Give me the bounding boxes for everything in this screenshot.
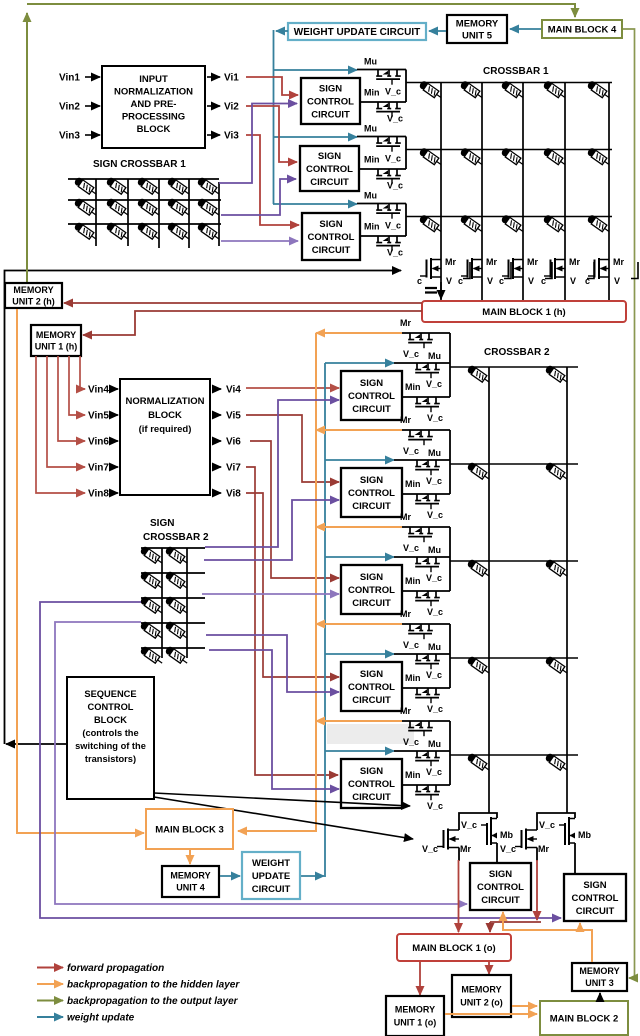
transistor Mu row4 (crossbar2) xyxy=(415,654,440,669)
wire Min rail row1 xyxy=(360,101,406,103)
svg-text:SIGN: SIGN xyxy=(150,518,174,529)
svg-text:V_c: V_c xyxy=(539,820,555,830)
svg-text:Vin7: Vin7 xyxy=(88,463,109,474)
svg-text:backpropagation to the hidden: backpropagation to the hidden layer xyxy=(67,980,240,991)
memristor crossbar1 r3c4 xyxy=(542,214,567,235)
sign control circuit 3 (layer2) xyxy=(341,565,402,614)
transistor Mu row2 (crossbar2) xyxy=(415,460,440,475)
wire red MEMORY UNIT 1 (h) to Vin4 xyxy=(80,356,85,389)
main block 1 (o) xyxy=(397,934,511,961)
svg-text:Mr: Mr xyxy=(445,257,456,267)
wire olive top horizontal xyxy=(27,4,575,17)
sign crossbar 2 row lines xyxy=(141,548,205,648)
svg-text:NORMALIZATION: NORMALIZATION xyxy=(126,396,205,407)
wire crossbar1 row line 3 xyxy=(406,216,612,218)
svg-text:CIRCUIT: CIRCUIT xyxy=(352,598,391,609)
memristor crossbar1 r1c2 xyxy=(459,80,484,101)
memristor sign-crossbar1 r3c5 xyxy=(196,221,221,242)
wire Min rail row3 (crossbar2) xyxy=(402,590,450,592)
wire blue Mu row1 xyxy=(273,69,357,71)
svg-text:V_c: V_c xyxy=(461,820,477,830)
weight update circuit (top) xyxy=(288,23,426,40)
svg-text:CONTROL: CONTROL xyxy=(88,702,134,712)
wire black Mu rail row2 (crossbar2) xyxy=(394,459,450,461)
wire Mu rail row2 xyxy=(357,136,406,138)
wire black Mu rail row4 (crossbar2) xyxy=(394,653,450,655)
arrow Vin1 into block xyxy=(85,76,100,78)
sign crossbar 1 column lines xyxy=(96,179,219,248)
wire Min rail row2 xyxy=(360,168,406,170)
svg-text:SIGN: SIGN xyxy=(360,572,383,583)
transistor pair 2 rail xyxy=(537,813,575,830)
svg-text:V_c: V_c xyxy=(403,446,419,456)
sequence control block xyxy=(67,677,154,799)
svg-text:CIRCUIT: CIRCUIT xyxy=(310,177,349,188)
svg-text:Mr: Mr xyxy=(400,318,411,328)
wire blue Mu row3 (crossbar2) xyxy=(325,556,394,558)
wire red pair2 horizontal xyxy=(490,921,541,923)
svg-text:CONTROL: CONTROL xyxy=(307,96,354,107)
svg-text:AND PRE-: AND PRE- xyxy=(131,99,177,110)
arrow Vin6 into normalization block xyxy=(112,440,118,442)
pointer sequence-control to crossbar2 transistors (upper) xyxy=(154,793,410,806)
wire Min rail row5 (crossbar2) xyxy=(402,784,450,786)
memristor sign-crossbar2 r2c2 xyxy=(164,570,189,591)
wire orange Mr rail row3 xyxy=(316,526,402,528)
sign control circuit 2 (hidden) xyxy=(300,146,359,191)
svg-text:Mr: Mr xyxy=(613,257,624,267)
wire blue MAIN BLOCK 4 to MEMORY UNIT 5 xyxy=(510,28,541,30)
svg-text:Vi2: Vi2 xyxy=(224,102,239,113)
wire red pair2 into MAIN BLOCK 1 (o) xyxy=(489,922,491,932)
memristor crossbar1 r1c4 xyxy=(542,80,567,101)
normalization block xyxy=(120,379,210,495)
wire right rail row1 xyxy=(405,70,407,103)
svg-text:BLOCK: BLOCK xyxy=(137,124,171,135)
svg-text:CIRCUIT: CIRCUIT xyxy=(311,109,350,120)
svg-text:UNIT 2 (o): UNIT 2 (o) xyxy=(460,998,503,1008)
memristor sign-crossbar2 r5c2 xyxy=(164,645,189,666)
memristor sign-crossbar2 r1c2 xyxy=(164,545,189,566)
memristor crossbar1 r3c1 xyxy=(418,214,443,235)
wire purple sign-crossbar2 row2 to SCC2 xyxy=(204,500,339,560)
svg-text:Mu: Mu xyxy=(364,57,377,67)
svg-text:c: c xyxy=(585,276,590,286)
legend weight update xyxy=(37,1016,63,1018)
transistor Mr output pair1 xyxy=(437,829,459,850)
svg-text:MEMORY: MEMORY xyxy=(579,966,619,976)
wire orange Mr rail row5 xyxy=(316,720,402,722)
svg-text:V_c: V_c xyxy=(500,844,516,854)
memristor crossbar2 r1c1 xyxy=(466,364,491,385)
svg-text:MEMORY: MEMORY xyxy=(13,285,53,295)
wire purple sign-crossbar2 row1 to SCC1 xyxy=(205,400,339,547)
svg-text:Mu: Mu xyxy=(364,124,377,134)
svg-text:Vi6: Vi6 xyxy=(226,437,241,448)
sign control circuit 2 (output) xyxy=(564,874,626,921)
svg-text:MEMORY: MEMORY xyxy=(456,18,499,29)
sign control circuit 3 (hidden) xyxy=(302,213,360,260)
wire blue MEMORY UNIT 4 to WEIGHT UPDATE CIRCUIT 2 xyxy=(220,875,240,877)
transistor Mb output pair1 xyxy=(481,817,497,845)
arrow Vi4 out of normalization block xyxy=(212,388,221,390)
wire purple sign-crossbar2 left to SCC (o) 2 xyxy=(40,602,561,918)
arrow black MAIN BLOCK 2 to MEMORY UNIT 3 xyxy=(599,993,601,1000)
wire crossbar2 row line 3 xyxy=(450,560,578,562)
wire right rail row3 xyxy=(405,204,407,237)
transistor Mr crossbar1 col3 xyxy=(502,258,523,279)
wire purple sign-crossbar1 row2 to SCC2 xyxy=(221,179,296,215)
transistor Mu row3 (crossbar2) xyxy=(415,557,440,572)
wire black Mu rail row1 (crossbar2) xyxy=(394,362,450,364)
svg-text:V_c: V_c xyxy=(426,476,442,486)
svg-text:CIRCUIT: CIRCUIT xyxy=(576,906,615,917)
memory unit 1 (o) xyxy=(386,996,444,1036)
arrow orange MAIN BLOCK 3 to MEMORY UNIT 4 xyxy=(189,850,191,864)
svg-text:c: c xyxy=(541,276,546,286)
wire olive left vertical to MEMORY UNIT 2 (h) xyxy=(26,13,28,282)
wire red pair2 Mr down xyxy=(536,860,538,920)
memristor sign-crossbar1 r3c2 xyxy=(105,221,130,242)
memristor sign-crossbar1 r1c4 xyxy=(166,176,191,197)
legend backprop output xyxy=(37,1000,63,1002)
arrow column1 into MAIN BLOCK 1 (h) xyxy=(440,282,442,299)
memristor crossbar1 r1c5 xyxy=(586,80,611,101)
wire red Vi5 to SCC2 (layer2) xyxy=(246,415,339,482)
svg-text:Mr: Mr xyxy=(527,257,538,267)
sign control circuit 4 (layer2) xyxy=(341,662,402,711)
svg-text:V_c: V_c xyxy=(403,640,419,650)
wire purple sign-crossbar2 row3 to SCC3 xyxy=(202,593,339,595)
svg-text:MEMORY: MEMORY xyxy=(36,330,76,340)
svg-text:CONTROL: CONTROL xyxy=(348,585,395,596)
arrow Vin8 into normalization block xyxy=(112,492,118,494)
transistor Mb output pair2 xyxy=(559,817,575,845)
wire red Vi1 to sign control circuit 1 xyxy=(246,77,298,95)
wire crossbar1 row line 2 xyxy=(406,149,612,151)
wire right rail row1 (crossbar2) xyxy=(449,333,451,397)
memristor crossbar1 r1c1 xyxy=(418,80,443,101)
svg-text:Mr: Mr xyxy=(400,512,411,522)
wire orange MEMORY UNIT 2 (o) to MAIN BLOCK 2 xyxy=(512,1005,537,1007)
wire blue Mu row4 (crossbar2) xyxy=(325,653,394,655)
svg-text:Vin6: Vin6 xyxy=(88,437,109,448)
memristor sign-crossbar2 r3c2 xyxy=(164,595,189,616)
memristor sign-crossbar1 r3c4 xyxy=(166,221,191,242)
svg-text:SIGN: SIGN xyxy=(360,669,383,680)
wire V_c elbow col2 xyxy=(504,262,511,279)
wire red MEMORY UNIT 1 (h) to Vin7 xyxy=(47,356,85,467)
svg-text:NORMALIZATION: NORMALIZATION xyxy=(114,87,193,98)
svg-text:Min: Min xyxy=(405,382,421,392)
memory unit 3 xyxy=(572,963,627,991)
svg-text:Min: Min xyxy=(364,88,380,98)
transistor Mr crossbar1 col5 xyxy=(588,258,609,279)
wire red Vi6 to SCC3 (layer2) xyxy=(250,441,339,578)
memristor sign-crossbar1 r1c5 xyxy=(196,176,221,197)
svg-text:V: V xyxy=(570,276,576,286)
wire purple sign-crossbar2 row4 to SCC4 xyxy=(206,635,339,692)
arrow Vi1 out of block xyxy=(207,76,220,78)
wire right rail row4 (crossbar2) xyxy=(449,624,451,688)
svg-text:V_c: V_c xyxy=(427,607,443,617)
wire blue weight-update bus crossbar1 xyxy=(273,30,275,204)
transistor Min row3 xyxy=(376,236,401,251)
wire crossbar1 row line 1 xyxy=(406,82,612,84)
memristor crossbar2 r5c1 xyxy=(466,752,491,773)
memristor sign-crossbar2 r4c1 xyxy=(139,620,164,641)
arrow red MAIN BLOCK 1 (o) to MEMORY UNIT 1 (o) xyxy=(419,962,421,995)
svg-text:V: V xyxy=(614,276,620,286)
memristor sign-crossbar1 r3c1 xyxy=(73,221,98,242)
memristor crossbar1 r3c3 xyxy=(500,214,525,235)
wire Mu rail row1 xyxy=(357,69,406,71)
memristor crossbar2 r4c2 xyxy=(544,655,569,676)
svg-text:UPDATE: UPDATE xyxy=(252,871,290,882)
svg-text:(controls the: (controls the xyxy=(82,728,138,738)
memristor sign-crossbar1 r1c2 xyxy=(105,176,130,197)
svg-text:MEMORY: MEMORY xyxy=(395,1005,435,1015)
memristor sign-crossbar2 r3c1 xyxy=(139,595,164,616)
svg-text:MAIN BLOCK 1 (h): MAIN BLOCK 1 (h) xyxy=(482,307,565,318)
memory unit 2 (o) xyxy=(452,975,511,1017)
wire dark-red MAIN BLOCK 1 (h) to MEMORY UNIT 2 (h) xyxy=(64,302,422,304)
transistor Mr output pair2 xyxy=(515,829,537,850)
wire black Mu rail row5 (crossbar2) xyxy=(394,750,450,752)
svg-text:Mu: Mu xyxy=(364,191,377,201)
wire red Vi4 to SCC1 (layer2) xyxy=(246,387,339,389)
svg-text:Mu: Mu xyxy=(428,545,441,555)
wire blue WEIGHT UPDATE CIRCUIT output xyxy=(276,30,288,32)
wire Min rail row4 (crossbar2) xyxy=(402,687,450,689)
svg-text:SIGN: SIGN xyxy=(319,83,342,94)
wire black Mr rail row5 xyxy=(402,720,450,722)
svg-text:V_c: V_c xyxy=(403,543,419,553)
svg-text:Min: Min xyxy=(364,222,380,232)
memristor crossbar2 r2c2 xyxy=(544,461,569,482)
wire sequence-control left output xyxy=(6,743,67,745)
wire orange crossbar2 bus to MAIN BLOCK 3 xyxy=(238,333,316,831)
crossbar 1 column lines xyxy=(441,83,609,302)
sign control circuit 1 (layer2) xyxy=(341,371,402,420)
memristor crossbar1 r3c2 xyxy=(459,214,484,235)
svg-text:Vin5: Vin5 xyxy=(88,411,109,422)
svg-text:Mu: Mu xyxy=(428,642,441,652)
memristor sign-crossbar1 r1c3 xyxy=(136,176,161,197)
arrow Vi6 out of normalization block xyxy=(212,440,221,442)
arrow Vi8 out of normalization block xyxy=(212,492,221,494)
transistor Min row1 (crossbar2) xyxy=(415,397,440,412)
svg-text:CIRCUIT: CIRCUIT xyxy=(312,245,351,256)
memristor crossbar1 r2c3 xyxy=(500,147,525,168)
main block 3 xyxy=(146,809,233,849)
svg-text:V_c: V_c xyxy=(427,704,443,714)
memory unit 1 (h) xyxy=(31,325,81,356)
wire orange MEMORY UNIT 1 (o) to MAIN BLOCK 2 xyxy=(445,1013,537,1015)
svg-text:Min: Min xyxy=(364,155,380,165)
transistor Mr crossbar1 col2 xyxy=(461,258,482,279)
svg-text:SIGN CROSSBAR 1: SIGN CROSSBAR 1 xyxy=(93,159,186,170)
svg-text:V_c: V_c xyxy=(403,737,419,747)
wire black Mr rail row1 xyxy=(402,332,450,334)
wire red pair1 Mr to MAIN BLOCK 1 (o) xyxy=(458,860,460,932)
arrow Vin7 into normalization block xyxy=(112,466,118,468)
transistor Mr crossbar1 col4 xyxy=(544,258,565,279)
crossbar 2 column lines xyxy=(489,367,567,813)
arrow red MAIN BLOCK 1 (o) to MEMORY UNIT 2 (o) xyxy=(488,962,490,974)
sign crossbar 1 row lines xyxy=(68,179,221,224)
wire orange MEMORY UNIT 3 to SCC (o) bottoms xyxy=(503,912,592,962)
svg-text:V_c: V_c xyxy=(427,801,443,811)
transistor Mr row4 (crossbar2) xyxy=(408,624,433,639)
wire red Vi2 to sign control circuit 2 xyxy=(246,106,297,162)
transistor Min row2 xyxy=(376,169,401,184)
memristor crossbar1 r3c5 xyxy=(586,214,611,235)
wire right rail row2 (crossbar2) xyxy=(449,430,451,494)
transistor Min row2 (crossbar2) xyxy=(415,494,440,509)
main block 1 (h) xyxy=(422,301,626,322)
svg-text:CIRCUIT: CIRCUIT xyxy=(352,501,391,512)
memristor sign-crossbar1 r1c1 xyxy=(73,176,98,197)
svg-text:Vi3: Vi3 xyxy=(224,131,239,142)
svg-text:INPUT: INPUT xyxy=(139,74,168,85)
wire black Mr rail row3 xyxy=(402,526,450,528)
svg-text:SEQUENCE: SEQUENCE xyxy=(84,689,136,699)
svg-text:Mr: Mr xyxy=(400,609,411,619)
memristor sign-crossbar2 r4c2 xyxy=(164,620,189,641)
wire Min rail row2 (crossbar2) xyxy=(402,493,450,495)
svg-text:SIGN: SIGN xyxy=(489,869,512,880)
svg-text:MAIN BLOCK 1 (o): MAIN BLOCK 1 (o) xyxy=(412,943,495,954)
svg-text:Vi4: Vi4 xyxy=(226,385,241,396)
transistor Mr row3 (crossbar2) xyxy=(408,527,433,542)
svg-text:MAIN BLOCK 4: MAIN BLOCK 4 xyxy=(548,24,617,35)
wire Mr leg down pair2 xyxy=(536,848,538,862)
wire blue Mu row2 xyxy=(273,136,357,138)
svg-text:V: V xyxy=(446,276,452,286)
svg-text:weight update: weight update xyxy=(67,1013,135,1024)
memristor crossbar2 r1c2 xyxy=(544,364,569,385)
svg-text:Vin4: Vin4 xyxy=(88,385,109,396)
svg-text:CIRCUIT: CIRCUIT xyxy=(352,695,391,706)
svg-text:c: c xyxy=(417,276,422,286)
svg-text:CIRCUIT: CIRCUIT xyxy=(352,792,391,803)
wire Mr leg down pair1 xyxy=(458,848,460,862)
svg-text:switching of the: switching of the xyxy=(75,741,146,751)
svg-text:Mu: Mu xyxy=(428,351,441,361)
memristor crossbar1 r2c5 xyxy=(586,147,611,168)
arrow Vi5 out of normalization block xyxy=(212,414,221,416)
svg-text:V_c: V_c xyxy=(385,87,401,97)
wire blue bus2 vertical xyxy=(324,363,326,877)
wire orange MEMORY UNIT 2 (h) to MAIN BLOCK 3 xyxy=(17,309,144,833)
memristor sign-crossbar1 r2c3 xyxy=(136,197,161,218)
arrow Vin3 into block xyxy=(85,134,100,136)
memristor crossbar2 r3c1 xyxy=(466,558,491,579)
memristor sign-crossbar2 r1c1 xyxy=(139,545,164,566)
svg-text:(if required): (if required) xyxy=(139,424,192,435)
svg-text:CONTROL: CONTROL xyxy=(477,882,524,893)
svg-text:Mb: Mb xyxy=(500,830,513,840)
svg-text:Min: Min xyxy=(405,673,421,683)
wire orange Mr rail row4 xyxy=(316,623,402,625)
wire orange Mr rail row2 xyxy=(316,429,402,431)
memristor sign-crossbar1 r2c4 xyxy=(166,197,191,218)
svg-text:CONTROL: CONTROL xyxy=(348,488,395,499)
wire Min rail row1 (crossbar2) xyxy=(402,396,450,398)
svg-text:UNIT 5: UNIT 5 xyxy=(462,30,493,41)
svg-text:forward propagation: forward propagation xyxy=(67,963,164,974)
memristor crossbar2 r4c1 xyxy=(466,655,491,676)
wire blue Mu row1 (crossbar2) xyxy=(325,362,394,364)
memristor sign-crossbar1 r3c3 xyxy=(136,221,161,242)
sign control circuit 1 (output) xyxy=(470,863,531,910)
memristor crossbar2 r3c2 xyxy=(544,558,569,579)
wire black Mr rail row4 xyxy=(402,623,450,625)
weight update circuit (bottom) xyxy=(242,852,300,899)
transistor Mr crossbar1 col1 xyxy=(420,258,441,279)
svg-text:V_c: V_c xyxy=(403,349,419,359)
svg-text:V_c: V_c xyxy=(387,248,403,258)
memristor crossbar1 r2c2 xyxy=(459,147,484,168)
svg-text:Mr: Mr xyxy=(400,415,411,425)
wire purple sign-crossbar1 row3 to SCC3 xyxy=(221,240,298,242)
wire Mu rail row3 xyxy=(357,203,406,205)
svg-text:UNIT 3: UNIT 3 xyxy=(585,978,614,988)
arrow Vin2 into block xyxy=(85,105,100,107)
svg-text:Min: Min xyxy=(405,576,421,586)
svg-text:CONTROL: CONTROL xyxy=(306,164,353,175)
wire crossbar2 row line 4 xyxy=(450,657,578,659)
transistor Mu row5 (crossbar2) xyxy=(415,751,440,766)
memristor crossbar2 r5c2 xyxy=(544,752,569,773)
wire right rail row3 (crossbar2) xyxy=(449,527,451,591)
transistor Mr row5 (crossbar2) xyxy=(408,721,433,736)
svg-text:Min: Min xyxy=(405,770,421,780)
wire blue Mu row5 (crossbar2) xyxy=(325,750,394,752)
arrow Vi2 out of block xyxy=(207,105,220,107)
transistor Mu row1 xyxy=(376,70,401,85)
svg-text:Mu: Mu xyxy=(428,739,441,749)
wire red Vi3 to sign control circuit 3 xyxy=(246,135,299,225)
wire black Mr rail row2 xyxy=(402,429,450,431)
svg-text:Mr: Mr xyxy=(486,257,497,267)
svg-text:MAIN BLOCK 2: MAIN BLOCK 2 xyxy=(550,1013,619,1024)
svg-text:Vin2: Vin2 xyxy=(59,102,80,113)
svg-text:V: V xyxy=(487,276,493,286)
transistor Mr row2 (crossbar2) xyxy=(408,430,433,445)
memory unit 5 xyxy=(447,15,507,43)
svg-text:Mr: Mr xyxy=(569,257,580,267)
svg-text:V_c: V_c xyxy=(422,844,438,854)
svg-text:c: c xyxy=(499,276,504,286)
svg-text:V_c: V_c xyxy=(385,154,401,164)
wire orange Mr rail row1 xyxy=(316,332,402,334)
svg-text:V: V xyxy=(528,276,534,286)
arrow Vin5 into normalization block xyxy=(112,414,118,416)
svg-text:CROSSBAR 2: CROSSBAR 2 xyxy=(143,532,209,543)
memory unit 2 (h) xyxy=(5,283,62,308)
svg-text:Vi7: Vi7 xyxy=(226,463,241,474)
transistor Min row1 xyxy=(376,102,401,117)
arrow orange into SCC (o) 2 bottom xyxy=(579,923,581,930)
wire V_c elbow col4 xyxy=(587,262,594,279)
transistor Mu row3 xyxy=(376,204,401,219)
svg-text:transistors): transistors) xyxy=(85,754,136,764)
svg-text:Vi8: Vi8 xyxy=(226,489,241,500)
svg-text:UNIT 4: UNIT 4 xyxy=(176,883,205,893)
wire olive right edge MAIN BLOCK 4 to MEMORY UNIT 3 xyxy=(622,29,635,978)
